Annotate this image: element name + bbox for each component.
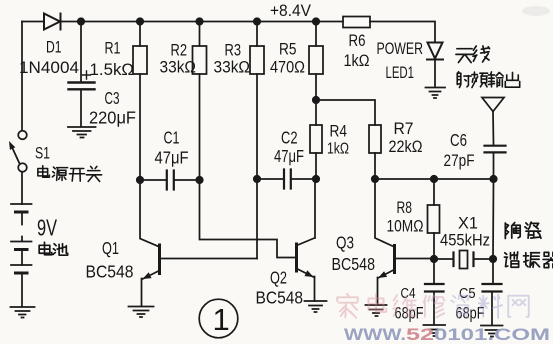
- resistor R5: [309, 46, 323, 74]
- svg-text:1kΩ: 1kΩ: [344, 51, 370, 70]
- wire R4 leads: [315, 100, 317, 179]
- capacitor C5: [483, 284, 502, 292]
- svg-text:C2: C2: [281, 128, 298, 148]
- wire oscillator net horizontal: [375, 178, 494, 180]
- label shepin shuchu (RF output): [457, 72, 471, 88]
- watermark url: [344, 325, 550, 344]
- svg-text:22kΩ: 22kΩ: [389, 137, 423, 156]
- capacitor C4: [425, 284, 444, 292]
- ground Q1: [129, 307, 154, 318]
- wire top rail left segment: [22, 21, 44, 23]
- wire R8 top: [433, 179, 435, 205]
- resistor R1: [133, 46, 147, 74]
- svg-text:R5: R5: [279, 40, 297, 59]
- switch S1: [18, 131, 27, 140]
- svg-text:10MΩ: 10MΩ: [387, 217, 424, 236]
- watermark chinese text: [337, 294, 529, 318]
- svg-text:9V: 9V: [37, 215, 57, 241]
- svg-text:BC548: BC548: [332, 254, 376, 274]
- svg-text:R1: R1: [105, 39, 121, 58]
- diode D1: [44, 14, 61, 30]
- transistor Q2: [295, 244, 298, 271]
- svg-text:455kHz: 455kHz: [440, 231, 490, 250]
- crystal X1: [454, 253, 474, 267]
- svg-text:R4: R4: [330, 122, 348, 141]
- switch arrow: [9, 141, 15, 150]
- svg-text:S1: S1: [35, 144, 50, 163]
- svg-text:BC548: BC548: [86, 262, 134, 282]
- wire R8 bottom: [433, 233, 435, 259]
- label taoci (ceramic): [505, 223, 520, 239]
- wire C4 top: [433, 259, 435, 284]
- junction node C1 left: [136, 176, 144, 184]
- label tianxian (antenna): [456, 49, 473, 63]
- svg-text:Q1: Q1: [102, 238, 119, 258]
- resistor R6: [343, 17, 370, 28]
- battery 9V cell 1: [11, 204, 32, 225]
- capacitor C3: [69, 83, 95, 90]
- wire X1 left lead: [434, 258, 454, 260]
- wire switch to battery: [21, 172, 23, 204]
- transistor Q3: [393, 246, 396, 273]
- wire Q3 base lead: [396, 258, 434, 260]
- wire Q3 emitter: [378, 270, 395, 305]
- wire antenna to C6: [492, 112, 495, 146]
- wire R2 top: [199, 22, 201, 47]
- ground C4: [424, 325, 446, 336]
- capacitor C6: [485, 146, 506, 153]
- wire X1 right lead: [474, 258, 494, 260]
- wire R2 bottom: [199, 74, 201, 180]
- resistor R4: [310, 125, 322, 153]
- svg-text:52: 52: [406, 325, 434, 344]
- ground C5: [481, 326, 503, 337]
- svg-text:27pF: 27pF: [444, 151, 475, 170]
- junction node X1 left: [430, 255, 438, 263]
- node circle 1 frame: [199, 299, 238, 338]
- svg-text:1kΩ: 1kΩ: [327, 141, 349, 158]
- svg-text:WWW.: WWW.: [344, 325, 406, 344]
- resistor R8: [428, 205, 440, 233]
- svg-text:470Ω: 470Ω: [270, 58, 305, 77]
- wire Q1 base lead: [161, 258, 257, 260]
- wire R3 top: [256, 22, 258, 47]
- junction node rail-R5: [312, 17, 320, 25]
- wire left column: [21, 22, 23, 131]
- wire C3 to ground: [80, 90, 82, 127]
- wire R5 top: [315, 22, 317, 47]
- ground Q2: [305, 301, 327, 312]
- svg-text:R7: R7: [394, 119, 414, 138]
- battery cell 3: [11, 265, 32, 307]
- junction node rail-R2: [195, 17, 203, 25]
- wire C1 node right: [175, 179, 200, 181]
- junction node rail-C3: [77, 17, 85, 25]
- junction node C6 bottom: [489, 175, 497, 183]
- wire C5 to ground: [491, 292, 493, 325]
- junction node C2 right: [312, 175, 320, 183]
- scan smudge: [522, 6, 550, 16]
- wire R1 bottom: [139, 74, 141, 180]
- svg-text:33kΩ: 33kΩ: [214, 58, 251, 77]
- junction node rail-R1: [136, 17, 144, 25]
- capacitor C1: [167, 171, 174, 190]
- wire Q2 collector: [297, 179, 316, 246]
- wire Q3 collector: [375, 179, 394, 247]
- resistor R3: [250, 46, 264, 74]
- CJK labels: [38, 46, 553, 268]
- wire C5 top: [492, 259, 494, 284]
- capacitor C2: [284, 170, 291, 189]
- svg-text:33kΩ: 33kΩ: [160, 58, 197, 77]
- svg-text:47μF: 47μF: [274, 146, 304, 166]
- wire R3 bottom to Q1 base: [256, 74, 258, 259]
- battery cell 2: [11, 237, 32, 266]
- svg-text:0101.COM: 0101.COM: [434, 325, 550, 344]
- svg-text:C3: C3: [105, 88, 120, 108]
- label xiezhenqi (resonator): [504, 252, 518, 267]
- wire Q2 emitter: [297, 269, 315, 302]
- svg-text:R8: R8: [397, 198, 413, 217]
- svg-text:220μF: 220μF: [89, 108, 136, 128]
- junction node C1 right: [195, 176, 203, 184]
- wire C2 node left: [257, 178, 283, 180]
- svg-text:Q2: Q2: [270, 268, 287, 288]
- wire Q1 collector: [140, 180, 159, 247]
- resistor R2: [193, 46, 207, 74]
- wire C3 from rail: [80, 22, 82, 82]
- wire R1 top: [139, 22, 141, 47]
- svg-text:D1: D1: [46, 38, 62, 57]
- svg-text:47μF: 47μF: [155, 148, 189, 168]
- wire R2 node to Q2 base: [200, 180, 296, 258]
- junction node R7 bottom: [371, 175, 379, 183]
- junction node rail-R3: [253, 17, 261, 25]
- Q3 emitter arrow: [378, 271, 387, 278]
- ground Q3: [366, 305, 387, 316]
- LED LED1: [427, 43, 443, 60]
- wire R7 bottom: [374, 153, 376, 179]
- ground C3: [68, 127, 96, 138]
- svg-text:+8.4V: +8.4V: [270, 2, 311, 20]
- wire R5 bottom node: [316, 74, 375, 125]
- label dianchi (battery): [39, 242, 52, 255]
- wire C2 node right: [292, 178, 317, 180]
- Q1 emitter arrow: [143, 272, 152, 279]
- svg-text:C1: C1: [164, 128, 180, 148]
- transistor Q1: [158, 245, 161, 274]
- wire C1 node left: [140, 179, 166, 181]
- wire rail to LED: [370, 22, 435, 43]
- antenna: [482, 98, 504, 112]
- ground battery: [11, 307, 35, 318]
- wire C6 column down: [492, 179, 495, 259]
- svg-text:BC548: BC548: [256, 288, 304, 308]
- svg-text:1.5kΩ: 1.5kΩ: [90, 60, 135, 79]
- wire Q1 emitter: [142, 271, 160, 307]
- svg-text:Q3: Q3: [336, 233, 354, 253]
- label dianyuan kaiguan (power switch): [38, 166, 50, 178]
- junction node R8 top: [430, 175, 438, 183]
- Q2 emitter arrow: [305, 270, 314, 277]
- svg-text:C6: C6: [450, 130, 467, 150]
- junction node C2 left: [253, 175, 261, 183]
- wire top rail: [61, 21, 344, 23]
- svg-text:R6: R6: [349, 31, 366, 50]
- wire C4 to ground: [433, 292, 435, 325]
- junction node R5-R4: [312, 96, 320, 104]
- resistor R7: [369, 125, 381, 153]
- svg-text:1: 1: [213, 302, 230, 337]
- junction node X1 right: [489, 255, 497, 263]
- svg-text:1N4004: 1N4004: [19, 59, 79, 77]
- wire LED to ground: [434, 60, 436, 87]
- svg-text:POWER: POWER: [377, 39, 424, 58]
- wire C6 bottom: [493, 153, 495, 180]
- ground LED: [426, 88, 446, 99]
- svg-text:LED1: LED1: [386, 63, 415, 82]
